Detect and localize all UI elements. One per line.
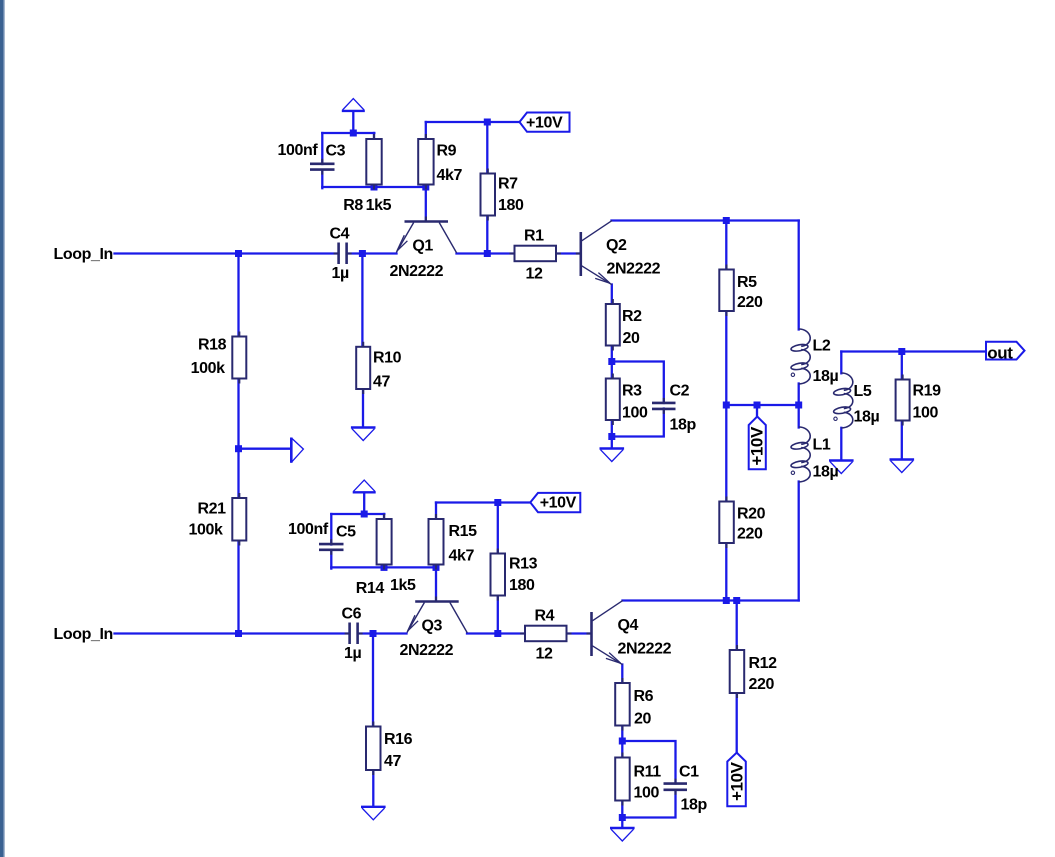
- svg-text:C6: C6: [342, 606, 362, 623]
- wire Q3 base stem: [435, 567, 437, 601]
- svg-text:Loop_In: Loop_In: [54, 246, 113, 263]
- transistor Q1 base pin lead: [425, 217, 427, 222]
- svg-text:R18: R18: [198, 337, 227, 354]
- wire node A down to R10: [361, 254, 363, 347]
- wire R13 bottom to row: [497, 595, 499, 634]
- resistor R5 pin leads: [725, 265, 727, 317]
- svg-text:18p: 18p: [670, 417, 697, 434]
- port flag out: [986, 342, 1025, 360]
- power flag +10V (lower network): [530, 493, 580, 512]
- wire bias network bottom (upper): [322, 186, 426, 188]
- resistor R15 pin leads: [435, 514, 437, 570]
- wire R14 bottom stub: [383, 564, 385, 567]
- wire R12 bottom to +10V flag: [736, 693, 738, 753]
- svg-text:+10V: +10V: [540, 494, 577, 511]
- svg-text:C2: C2: [670, 383, 690, 400]
- svg-text:R1: R1: [524, 227, 544, 244]
- wire stub to port arrow: [239, 448, 292, 450]
- resistor R3: [606, 379, 620, 421]
- resistor R12: [730, 650, 745, 693]
- svg-text:+10V: +10V: [526, 115, 563, 132]
- resistor R8 pin leads: [373, 134, 375, 190]
- svg-text:R10: R10: [373, 350, 402, 367]
- power flag +10V (mid rail): [749, 417, 766, 470]
- wire Loop_In lower lead: [115, 632, 239, 634]
- power arrow above C3/R8: [342, 99, 365, 111]
- svg-text:100: 100: [634, 784, 660, 801]
- svg-text:180: 180: [509, 577, 535, 594]
- svg-text:C1: C1: [679, 764, 699, 781]
- node junction lower collector row/R12: [733, 597, 740, 604]
- resistor R4: [525, 626, 567, 642]
- wire Q3 collector to R4: [467, 632, 525, 634]
- wire C3 lower lead: [321, 171, 323, 189]
- node junction mid rail/R5-R20: [723, 402, 730, 409]
- svg-text:Loop_In: Loop_In: [54, 626, 113, 643]
- wire +10V lower rail: [436, 501, 530, 503]
- wire R7 bottom to row: [486, 215, 488, 254]
- svg-text:2N2222: 2N2222: [618, 641, 672, 658]
- resistor R2: [606, 304, 620, 346]
- wire mid junction to R21: [237, 449, 239, 498]
- wire C2 branch bottom: [612, 409, 664, 437]
- resistor R8: [366, 139, 381, 185]
- wire mid rail to R20: [725, 405, 727, 502]
- svg-text:R7: R7: [498, 176, 518, 193]
- node junction R11/C1 ground node: [619, 814, 626, 821]
- capacitor C4 pin leads: [334, 252, 352, 254]
- svg-text:+10V: +10V: [728, 761, 747, 801]
- svg-text:12: 12: [536, 646, 553, 663]
- node junction upper-left rail: [235, 250, 242, 257]
- resistor R10: [356, 347, 370, 389]
- resistor R19: [896, 380, 910, 421]
- node junction R6/R11/C1: [619, 738, 626, 745]
- wire L2 top: [798, 221, 800, 330]
- wire R2 to R3: [611, 346, 613, 379]
- wire C6 to Q3 emitter: [358, 632, 407, 634]
- svg-text:L5: L5: [854, 383, 872, 400]
- node junction power arrow (lower network): [361, 511, 368, 518]
- wire C1 branch top: [622, 741, 675, 784]
- wire R20 bottom to lower collector row: [725, 543, 727, 601]
- node junction R2/R3/C2: [608, 358, 615, 365]
- svg-text:100: 100: [913, 405, 939, 422]
- capacitor C4: [339, 243, 347, 265]
- wire bias network bottom (lower): [331, 566, 436, 568]
- resistor R11: [615, 758, 630, 801]
- svg-text:L2: L2: [813, 338, 831, 355]
- svg-text:220: 220: [737, 526, 763, 543]
- wire C5 upper lead: [330, 514, 332, 545]
- svg-text:2N2222: 2N2222: [390, 263, 444, 280]
- resistor R1: [515, 246, 557, 262]
- wire Loop_In upper lead: [115, 252, 239, 254]
- svg-text:R3: R3: [622, 383, 642, 400]
- svg-text:R9: R9: [437, 143, 457, 160]
- capacitor C3 pin leads: [321, 159, 323, 175]
- svg-text:R20: R20: [737, 506, 766, 523]
- wire C3 upper lead: [321, 133, 323, 164]
- capacitor C5: [319, 544, 344, 550]
- ground under L5: [829, 461, 854, 474]
- resistor R20 pin leads: [725, 497, 727, 549]
- wire R9 bottom stub: [425, 184, 427, 188]
- resistor R1 pin leads: [510, 252, 562, 254]
- transistor Q2: [581, 221, 612, 285]
- capacitor C5 pin leads: [330, 539, 332, 555]
- capacitor C1: [664, 784, 688, 790]
- node junction R15 bottom / Q3 base: [433, 564, 440, 571]
- wire R3 to ground node: [611, 420, 613, 447]
- node junction +10V rail/R7: [484, 119, 491, 126]
- node junction C6/R16 tap: [370, 630, 377, 637]
- node junction R7/Q1-collector: [484, 250, 491, 257]
- wire R6 to R11: [621, 726, 623, 758]
- ground under R11/C1: [610, 828, 635, 841]
- resistor R21 pin leads: [238, 493, 240, 546]
- svg-text:Q4: Q4: [618, 617, 639, 634]
- svg-text:18µ: 18µ: [813, 368, 839, 385]
- svg-text:1k5: 1k5: [390, 577, 416, 594]
- resistor R9: [418, 139, 433, 185]
- wire mid +10V flag stem: [756, 405, 758, 418]
- transistor Q1: [396, 222, 456, 253]
- svg-text:4k7: 4k7: [449, 548, 475, 565]
- svg-text:out: out: [987, 343, 1013, 362]
- svg-text:R8: R8: [343, 197, 363, 214]
- wire power arrow stem (lower): [363, 494, 365, 514]
- resistor R6 pin leads: [621, 678, 623, 731]
- inductor L5: [833, 373, 853, 428]
- svg-text:R21: R21: [198, 501, 227, 518]
- svg-text:R2: R2: [622, 308, 642, 325]
- svg-text:12: 12: [526, 266, 543, 283]
- wire L2 bottom: [798, 384, 800, 406]
- wire R15 top stub: [435, 503, 437, 520]
- resistor R7 pin leads: [487, 169, 489, 221]
- wire R1 to Q2 base: [556, 252, 580, 254]
- wire R19 top: [901, 352, 903, 380]
- svg-text:1µ: 1µ: [332, 265, 349, 282]
- wire +10V rail down to R7: [486, 122, 488, 174]
- inductor L2: [791, 329, 811, 384]
- resistor R13: [491, 554, 506, 596]
- wire R8 bottom stub: [373, 184, 375, 188]
- resistor R13 pin leads: [497, 549, 499, 601]
- capacitor C1 pin leads: [674, 779, 676, 795]
- svg-text:C3: C3: [326, 143, 346, 160]
- svg-text:R5: R5: [737, 274, 757, 291]
- wire R5 top: [725, 221, 727, 270]
- resistor R16 pin leads: [372, 722, 374, 776]
- capacitor C6: [350, 623, 358, 645]
- svg-text:Q1: Q1: [412, 238, 433, 255]
- wire upper row to C4: [239, 252, 339, 254]
- ground under R16: [361, 807, 386, 820]
- power flag +10V (below R12): [727, 753, 746, 807]
- svg-text:1µ: 1µ: [344, 645, 361, 662]
- transistor Q3 base pin lead: [435, 597, 437, 602]
- wire R8 top stub: [373, 133, 375, 139]
- power arrow above C5/R14: [353, 480, 376, 492]
- transistor Q2 base pin lead: [576, 252, 581, 254]
- node junction +10V rail/R13: [494, 499, 501, 506]
- wire R9 top stub: [425, 122, 427, 139]
- node junction R3/C2 ground node: [608, 433, 615, 440]
- transistor Q4: [592, 601, 623, 665]
- svg-text:4k7: 4k7: [437, 167, 463, 184]
- svg-text:R14: R14: [356, 580, 385, 597]
- resistor R6: [615, 683, 630, 726]
- svg-text:2N2222: 2N2222: [607, 261, 661, 278]
- svg-text:180: 180: [498, 197, 524, 214]
- svg-text:L1: L1: [813, 437, 831, 454]
- svg-text:47: 47: [373, 374, 390, 391]
- resistor R11 pin leads: [621, 753, 623, 806]
- transistor Q4 base pin lead: [587, 632, 592, 634]
- resistor R15: [429, 519, 444, 565]
- wire Q2 collector row: [612, 219, 799, 221]
- node junction mid rail/+10V flag: [754, 402, 761, 409]
- svg-text:100nf: 100nf: [278, 142, 319, 159]
- node junction R8 bottom: [371, 184, 378, 191]
- wire mid +10V rail: [726, 404, 798, 406]
- wire R10 bottom to ground: [362, 388, 364, 426]
- svg-text:47: 47: [384, 753, 401, 770]
- resistor R4 pin leads: [520, 632, 572, 634]
- resistor R2 pin leads: [612, 299, 614, 351]
- capacitor C6 pin leads: [345, 632, 363, 634]
- wire R12 top: [736, 601, 738, 651]
- svg-text:2N2222: 2N2222: [400, 642, 454, 659]
- svg-text:R15: R15: [449, 523, 478, 540]
- svg-text:+10V: +10V: [747, 426, 766, 466]
- inductor L1: [791, 427, 811, 482]
- resistor R9 pin leads: [425, 134, 427, 190]
- svg-text:R16: R16: [384, 731, 413, 748]
- node junction C4/R10 tap: [359, 250, 366, 257]
- svg-text:100k: 100k: [189, 522, 223, 539]
- node junction lower collector row/R20: [723, 597, 730, 604]
- wire left rail R18 top: [237, 254, 239, 337]
- wire R11 to ground node: [621, 801, 623, 827]
- svg-text:18µ: 18µ: [854, 409, 880, 426]
- ground under R10: [351, 428, 376, 441]
- wire C2 branch top: [612, 362, 664, 404]
- wire L5 top: [840, 352, 842, 374]
- resistor R14 pin leads: [383, 514, 385, 570]
- resistor R18: [232, 337, 246, 379]
- wire +10V top rail: [426, 121, 520, 123]
- svg-text:R12: R12: [749, 655, 778, 672]
- wire C4 to Q1 emitter: [347, 252, 397, 254]
- wire C1 branch bottom: [622, 790, 675, 818]
- wire bias network top (lower): [331, 513, 384, 515]
- node Loop_In (upper) label: [0, 0, 1, 1]
- wire R16 bottom to ground: [372, 769, 374, 806]
- wire +10V rail down to R13: [497, 503, 499, 554]
- wire power arrow stem (upper): [352, 112, 354, 133]
- svg-text:Q3: Q3: [422, 618, 443, 635]
- node junction R14 bottom: [381, 564, 388, 571]
- wire R5 bottom to mid rail: [725, 311, 727, 405]
- wire bias network top (upper): [322, 132, 374, 134]
- resistor R10 pin leads: [362, 342, 364, 394]
- wire lower row to C6: [239, 632, 350, 634]
- resistor R5: [719, 270, 734, 312]
- resistor R18 pin leads: [238, 332, 240, 384]
- svg-text:R6: R6: [634, 688, 654, 705]
- svg-text:Q2: Q2: [606, 237, 627, 254]
- wire Q4 emitter to R6: [621, 665, 623, 684]
- svg-text:220: 220: [737, 294, 763, 311]
- node junction R9 bottom / Q1 base: [422, 184, 429, 191]
- svg-text:100: 100: [622, 405, 648, 422]
- resistor R7: [481, 174, 496, 216]
- svg-text:R4: R4: [535, 608, 555, 625]
- wire R14 top stub: [383, 514, 385, 520]
- node junction power arrow (upper network): [350, 130, 357, 137]
- resistor R21: [232, 498, 246, 541]
- svg-text:220: 220: [749, 676, 775, 693]
- resistor R14: [377, 519, 392, 565]
- svg-text:C4: C4: [330, 226, 350, 243]
- wire R15 bottom stub: [435, 564, 437, 567]
- ground under R19: [890, 460, 915, 473]
- resistor R3 pin leads: [612, 374, 614, 426]
- svg-text:18p: 18p: [681, 797, 708, 814]
- resistor R19 pin leads: [902, 375, 904, 426]
- wire R19 bottom to ground: [901, 421, 903, 459]
- wire L1 bottom to lower collector row: [798, 482, 800, 601]
- node junction R13/Q3-collector: [494, 630, 501, 637]
- node junction collector row/R5: [723, 217, 730, 224]
- svg-text:R11: R11: [634, 764, 662, 781]
- wire Q1 base stem: [425, 187, 427, 221]
- capacitor C3: [310, 164, 335, 170]
- power flag +10V (upper network): [520, 113, 570, 132]
- transistor Q3: [407, 602, 467, 633]
- ground under R3/C2: [600, 449, 625, 462]
- capacitor C2: [652, 403, 676, 409]
- svg-text:100nf: 100nf: [288, 521, 329, 538]
- wire C5 lower lead: [330, 551, 332, 569]
- wire out row: [841, 350, 986, 352]
- resistor R16: [366, 727, 381, 771]
- capacitor C2 pin leads: [663, 398, 665, 414]
- svg-text:1k5: 1k5: [366, 197, 392, 214]
- resistor R12 pin leads: [736, 645, 738, 698]
- wire L1 top: [798, 405, 800, 428]
- svg-text:100k: 100k: [191, 360, 225, 377]
- svg-text:R19: R19: [913, 383, 942, 400]
- svg-text:C5: C5: [336, 524, 356, 541]
- svg-text:R13: R13: [509, 556, 538, 573]
- svg-text:20: 20: [623, 330, 640, 347]
- wire Q1 collector to R1: [457, 252, 515, 254]
- wire R18 bottom to mid junction: [237, 378, 239, 450]
- wire node B down to R16: [372, 634, 374, 727]
- svg-text:20: 20: [634, 711, 651, 728]
- node junction out row/R19: [898, 348, 905, 355]
- wire R4 to Q4 base: [567, 632, 592, 634]
- node junction mid rail/L1-L2: [795, 402, 802, 409]
- node junction lower-left rail: [235, 630, 242, 637]
- resistor R20: [719, 502, 734, 544]
- wire lower collector row: [623, 599, 799, 601]
- wire R21 bottom to lower row: [237, 540, 239, 634]
- port arrow mid-left: [291, 438, 303, 463]
- wire Q2 emitter to R2: [611, 285, 613, 305]
- svg-text:18µ: 18µ: [813, 464, 839, 481]
- node junction mid-left rail/port: [235, 445, 242, 452]
- wire L5 bottom to ground: [840, 428, 842, 459]
